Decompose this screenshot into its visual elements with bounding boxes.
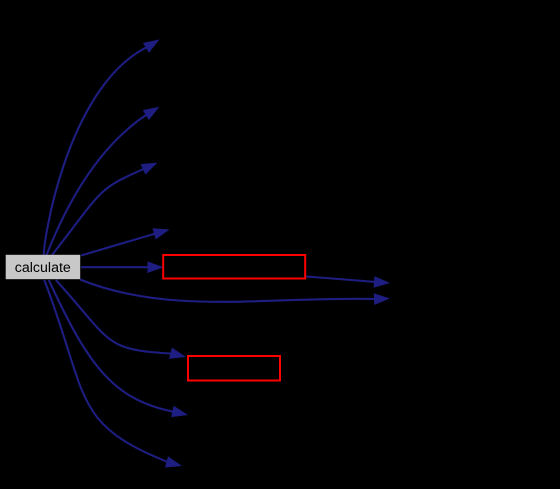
svg-text:calculate: calculate	[15, 260, 71, 276]
